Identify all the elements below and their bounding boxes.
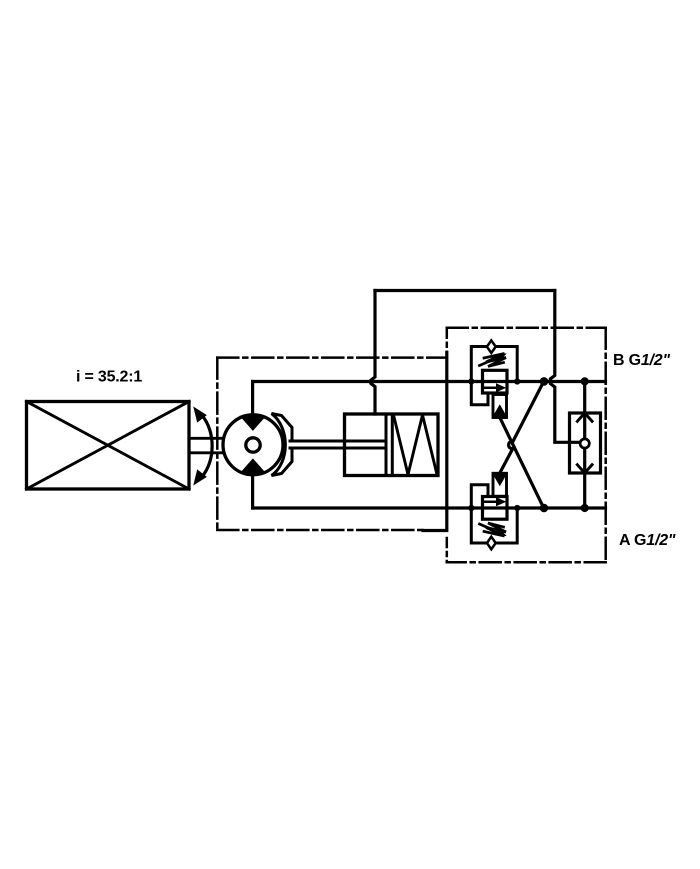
- svg-text:i = 35.2:1: i = 35.2:1: [76, 369, 142, 386]
- svg-text:A G1/2": A G1/2": [619, 532, 676, 549]
- svg-text:B G1/2": B G1/2": [613, 352, 671, 369]
